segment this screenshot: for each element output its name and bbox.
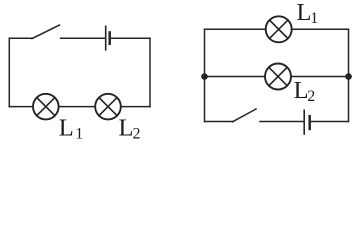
wire right-circuit bottom left segment — [205, 121, 233, 123]
svg-text:1: 1 — [75, 125, 83, 142]
svg-text:1: 1 — [310, 10, 318, 27]
battery (left circuit) short thick plate — [108, 32, 111, 43]
label L2 (right circuit) — [294, 77, 316, 105]
svg-text:2: 2 — [133, 125, 141, 142]
battery (left circuit) long plate — [105, 26, 107, 50]
lamp L2 (left circuit) — [95, 94, 121, 120]
wire right-circuit right vertical — [348, 29, 350, 121]
lamp L1 (right circuit) — [266, 16, 292, 42]
node junction dot right — [345, 73, 352, 80]
label L1 (left circuit) — [59, 115, 83, 143]
wire right-circuit left vertical — [204, 29, 206, 121]
wire left-circuit between lamps — [59, 106, 96, 108]
wire right-circuit middle left segment — [205, 76, 266, 78]
wire left-circuit battery to top-right corner — [111, 37, 150, 39]
svg-text:2: 2 — [307, 88, 315, 105]
wire left-circuit bottom left segment — [9, 106, 33, 108]
wire right-circuit top left segment — [205, 28, 266, 30]
switch (left circuit, open blade) — [32, 25, 60, 39]
wire left-circuit bottom right segment — [121, 106, 150, 108]
wire right-circuit middle right segment — [291, 76, 349, 78]
lamp L2 (right circuit) — [265, 64, 291, 90]
wire left-circuit right vertical — [149, 38, 151, 106]
svg-text:L: L — [119, 115, 134, 142]
lamp L1 (left circuit) — [33, 94, 59, 120]
battery (right circuit) long plate — [303, 110, 305, 134]
wire right-circuit switch to battery — [260, 121, 303, 123]
wire left-circuit left vertical — [8, 38, 10, 106]
wire left-circuit switch to battery — [61, 37, 105, 39]
node junction dot left — [201, 73, 208, 80]
wire right-circuit top right segment — [292, 28, 349, 30]
wire left-circuit top segment to switch — [9, 37, 32, 39]
label L2 (left circuit) — [119, 115, 141, 143]
battery (right circuit) short thick plate — [308, 116, 311, 129]
svg-text:L: L — [297, 0, 312, 26]
svg-text:L: L — [59, 115, 74, 142]
label L1 (right circuit) — [297, 0, 319, 27]
wire right-circuit battery to bottom-right corner — [312, 121, 349, 123]
switch (right circuit, open blade) — [233, 109, 257, 122]
